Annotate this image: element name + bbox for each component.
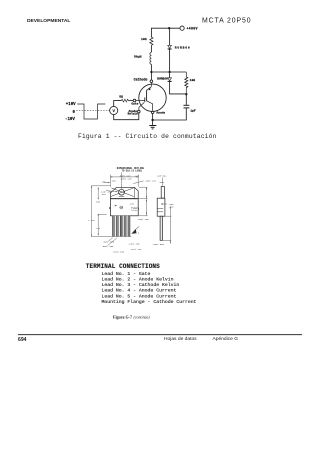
package tab outline <box>110 187 138 198</box>
svg-text:694: 694 <box>18 337 27 343</box>
MCT device U1 circle <box>139 84 166 111</box>
svg-text:-10V: -10V <box>65 118 75 122</box>
pulse source V1 <box>110 106 118 114</box>
anode terminal <box>151 110 165 114</box>
cathode terminal <box>134 78 153 85</box>
tab cross mark <box>111 188 134 197</box>
svg-text:Lead No. 2 - Anode Kelvin: Lead No. 2 - Anode Kelvin <box>102 277 174 283</box>
svg-text:TO-218 (5 LEAD): TO-218 (5 LEAD) <box>122 170 143 173</box>
svg-text:1.181: 1.181 <box>88 219 95 222</box>
wire right diode column upper <box>169 28 171 45</box>
svg-text:Gate: Gate <box>131 103 138 106</box>
resistor R1 10 ohm <box>141 37 153 45</box>
svg-text:.245/.255: .245/.255 <box>128 243 141 246</box>
waveform label 0 <box>73 111 76 115</box>
svg-text:.645 MAX: .645 MAX <box>156 174 167 177</box>
svg-text:.630: .630 <box>95 201 101 204</box>
svg-text:.157/.197: .157/.197 <box>130 248 143 251</box>
side view tab profile <box>161 187 164 199</box>
svg-text:DIA: DIA <box>102 193 107 196</box>
inductor L1 50uH <box>134 52 151 64</box>
wire source bottom to anode kelvin <box>114 113 139 120</box>
wire left column upper <box>150 28 152 37</box>
svg-text:.095/.105: .095/.105 <box>102 245 115 248</box>
ground <box>149 120 156 129</box>
svg-text:.030/.055: .030/.055 <box>152 243 165 246</box>
svg-text:V: V <box>113 109 116 113</box>
svg-text:Lead No. 4 - Anode Current: Lead No. 4 - Anode Current <box>102 288 177 294</box>
node capacitor top junction <box>185 93 187 95</box>
svg-text:Hojas de datos: Hojas de datos <box>164 336 197 342</box>
lead 1 <box>112 216 114 236</box>
gate terminal <box>131 99 138 105</box>
gate drive waveform <box>77 104 105 119</box>
svg-text:.190/.210: .190/.210 <box>144 180 157 183</box>
svg-text:10Ω: 10Ω <box>190 78 196 82</box>
wire mid horizontal rail <box>151 71 186 73</box>
diode D1 RURB60 <box>168 45 191 72</box>
wire anode to ground node <box>152 114 154 120</box>
svg-text:.730: .730 <box>95 227 101 230</box>
svg-text:.410: .410 <box>134 174 140 177</box>
side view body <box>157 198 165 216</box>
svg-text:50μH: 50μH <box>134 55 142 59</box>
datum box <box>131 207 139 210</box>
dimension left tall <box>91 186 131 237</box>
node anode junction <box>151 119 153 121</box>
svg-text:1μF: 1μF <box>190 108 196 112</box>
svg-text:Cathode: Cathode <box>134 78 148 82</box>
svg-text:Anode: Anode <box>156 110 165 114</box>
dimension lines top <box>104 172 144 189</box>
svg-text:DEVELOPMENTAL: DEVELOPMENTAL <box>27 18 70 24</box>
svg-text:Apéndice G: Apéndice G <box>213 336 239 342</box>
capacitor C1 1uF <box>153 94 196 120</box>
terminal +400V <box>180 26 198 31</box>
svg-text:+400V: +400V <box>186 27 197 31</box>
lead 2 <box>116 216 118 236</box>
node left mid junction <box>150 71 152 73</box>
node diode mid junction <box>168 71 170 73</box>
tab body separator <box>110 198 138 200</box>
lead 3 <box>120 216 122 236</box>
wire cathode drop <box>150 72 152 80</box>
svg-text:10Ω: 10Ω <box>141 37 147 41</box>
lead 5 <box>128 216 130 236</box>
svg-text:Lead No. 5 - Anode Current: Lead No. 5 - Anode Current <box>102 293 177 299</box>
side view right vertical dimension <box>163 207 172 244</box>
side view dimension arrow <box>161 203 167 205</box>
svg-text:0: 0 <box>73 111 76 115</box>
svg-text:.160: .160 <box>110 179 116 182</box>
svg-text:5Ω: 5Ω <box>119 94 123 98</box>
svg-text:.160: .160 <box>100 181 106 184</box>
section cut arrow <box>131 229 136 234</box>
svg-text:.019: .019 <box>168 205 174 208</box>
waveform label +10V <box>66 103 76 107</box>
svg-text:.390/.420: .390/.420 <box>120 178 133 181</box>
svg-text:(continúa): (continúa) <box>134 315 151 319</box>
wire left column lower <box>150 64 152 72</box>
dashed zero reference line <box>76 110 109 112</box>
dimension right of body <box>139 187 148 216</box>
svg-text:+10V: +10V <box>66 103 76 107</box>
package body <box>110 199 138 216</box>
svg-text:RURB60: RURB60 <box>157 77 168 80</box>
svg-text:Lead No. 3 - Cathode Kelvin: Lead No. 3 - Cathode Kelvin <box>102 282 180 288</box>
svg-text:.105/.135: .105/.135 <box>137 218 150 221</box>
MCT internal symbol <box>136 84 153 110</box>
svg-text:Figura G-7: Figura G-7 <box>113 314 132 319</box>
resistor R2 10 ohm <box>185 72 196 94</box>
lead 4 <box>124 216 126 236</box>
resistor R3 5 ohm gate <box>119 94 128 102</box>
pin1 indicator circle <box>120 206 123 209</box>
wire between R1 and L1 <box>150 45 152 52</box>
figure G-7 caption <box>113 314 150 319</box>
svg-text:Kelvin: Kelvin <box>128 112 138 116</box>
svg-text:TERMINAL CONNECTIONS: TERMINAL CONNECTIONS <box>86 263 160 270</box>
anode kelvin terminal <box>128 109 141 116</box>
svg-text:Figura 1 -- Circuito de conmut: Figura 1 -- Circuito de conmutación <box>78 133 217 140</box>
node top junction <box>168 27 170 29</box>
svg-text:Mounting Flange - Cathode Curr: Mounting Flange - Cathode Current <box>102 299 197 305</box>
waveform label -10V <box>65 118 75 122</box>
svg-text:RURB60: RURB60 <box>175 45 191 49</box>
svg-text:.610/.640: .610/.640 <box>112 250 125 253</box>
wire source to gate resistor <box>114 101 122 107</box>
side view lead <box>160 216 162 240</box>
mounting hole <box>119 189 125 195</box>
footer rule <box>18 334 302 336</box>
wire top rail <box>151 27 180 29</box>
svg-text:Lead No. 1 - Gate: Lead No. 1 - Gate <box>102 271 151 277</box>
wire resistor to gate <box>128 100 133 102</box>
svg-text:.166: .166 <box>129 202 135 205</box>
svg-text:A: A <box>138 232 140 235</box>
svg-text:MCTA 20P50: MCTA 20P50 <box>202 17 251 24</box>
diode D2 RURB60 <box>157 72 186 94</box>
